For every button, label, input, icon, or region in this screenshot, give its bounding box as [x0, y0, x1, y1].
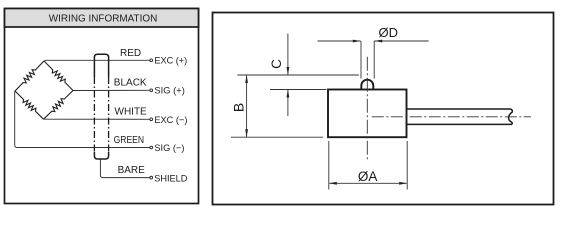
svg-text:B: B: [230, 103, 246, 112]
dimension C line with arrows: [287, 34, 290, 117]
label C: [269, 59, 284, 69]
extension line body top: [270, 89, 326, 91]
svg-text:EXC (−): EXC (−): [154, 115, 187, 126]
label EXC (+): [154, 55, 187, 66]
svg-text:C: C: [269, 59, 284, 69]
label EXC (-): [154, 115, 187, 126]
extension line body bottom: [231, 136, 323, 138]
cable sleeve left dash-dot edge: [93, 77, 95, 152]
dimension A extension line right: [406, 141, 408, 190]
wire GREEN from left node down and right to SIG(-): [15, 91, 150, 148]
label RED: [120, 48, 141, 59]
svg-text:EXC (+): EXC (+): [154, 55, 187, 66]
terminal dot EXC(+): [150, 59, 153, 62]
vertical centerline of body: [366, 57, 368, 161]
wire WHITE from bottom node to EXC(-): [44, 118, 150, 120]
extension line button top: [237, 74, 359, 76]
load button dome: [361, 80, 373, 90]
bridge resistor R3 bottom-left: [15, 91, 44, 119]
label B: [230, 103, 246, 112]
label BARE: [118, 165, 146, 176]
label GREEN: [114, 135, 145, 146]
label SIG (+): [154, 86, 185, 97]
label diameter D: [379, 25, 399, 40]
cable sleeve right dash-dot edge: [108, 77, 110, 152]
header band WIRING INFORMATION: [5, 9, 199, 28]
left panel frame: [5, 9, 199, 204]
load cell body: [328, 90, 407, 138]
svg-text:BARE: BARE: [118, 165, 146, 176]
terminal dot SIG(-): [150, 146, 153, 149]
wire RED from top node to EXC(+): [44, 59, 150, 62]
label diameter A: [358, 169, 378, 184]
svg-text:BLACK: BLACK: [114, 78, 147, 89]
dimension A line with arrows: [329, 182, 407, 185]
horizontal centerline of cable: [372, 116, 531, 118]
right panel frame: [213, 13, 554, 205]
bridge resistor R2 top-right: [44, 61, 73, 91]
terminal dot SHIELD: [150, 176, 153, 179]
svg-text:RED: RED: [120, 48, 141, 59]
cable sleeve top cap: [94, 54, 108, 77]
svg-text:SHIELD: SHIELD: [154, 173, 187, 184]
dimension D line right with arrow: [374, 40, 428, 43]
terminal dot SIG(+): [150, 89, 153, 92]
dimension A extension line left: [328, 141, 330, 190]
dimension D line left with arrow: [318, 40, 361, 43]
wire BARE from cable shield to SHIELD: [100, 159, 149, 178]
svg-text:WHITE: WHITE: [115, 107, 148, 118]
dimension D extension line right: [373, 41, 375, 79]
svg-text:SIG (−): SIG (−): [154, 143, 184, 154]
label SIG (-): [154, 143, 184, 154]
cable jacket: [407, 109, 512, 124]
label BLACK: [114, 78, 147, 89]
dimension D extension line left: [360, 41, 362, 79]
label SHIELD: [154, 173, 187, 184]
bridge resistor R4 bottom-right: [44, 91, 74, 120]
svg-text:SIG (+): SIG (+): [154, 86, 185, 97]
cable sleeve bottom cap: [94, 152, 108, 159]
svg-text:ØA: ØA: [358, 169, 378, 184]
terminal dot EXC(-): [150, 118, 153, 121]
bridge resistor R1 top-left: [15, 61, 44, 91]
label WHITE: [115, 107, 148, 118]
dimension B line with arrows: [245, 75, 248, 137]
svg-text:GREEN: GREEN: [114, 135, 145, 146]
wire BLACK from right node to SIG(+): [73, 89, 150, 91]
svg-text:WIRING INFORMATION: WIRING INFORMATION: [49, 13, 158, 25]
svg-text:ØD: ØD: [379, 25, 399, 40]
